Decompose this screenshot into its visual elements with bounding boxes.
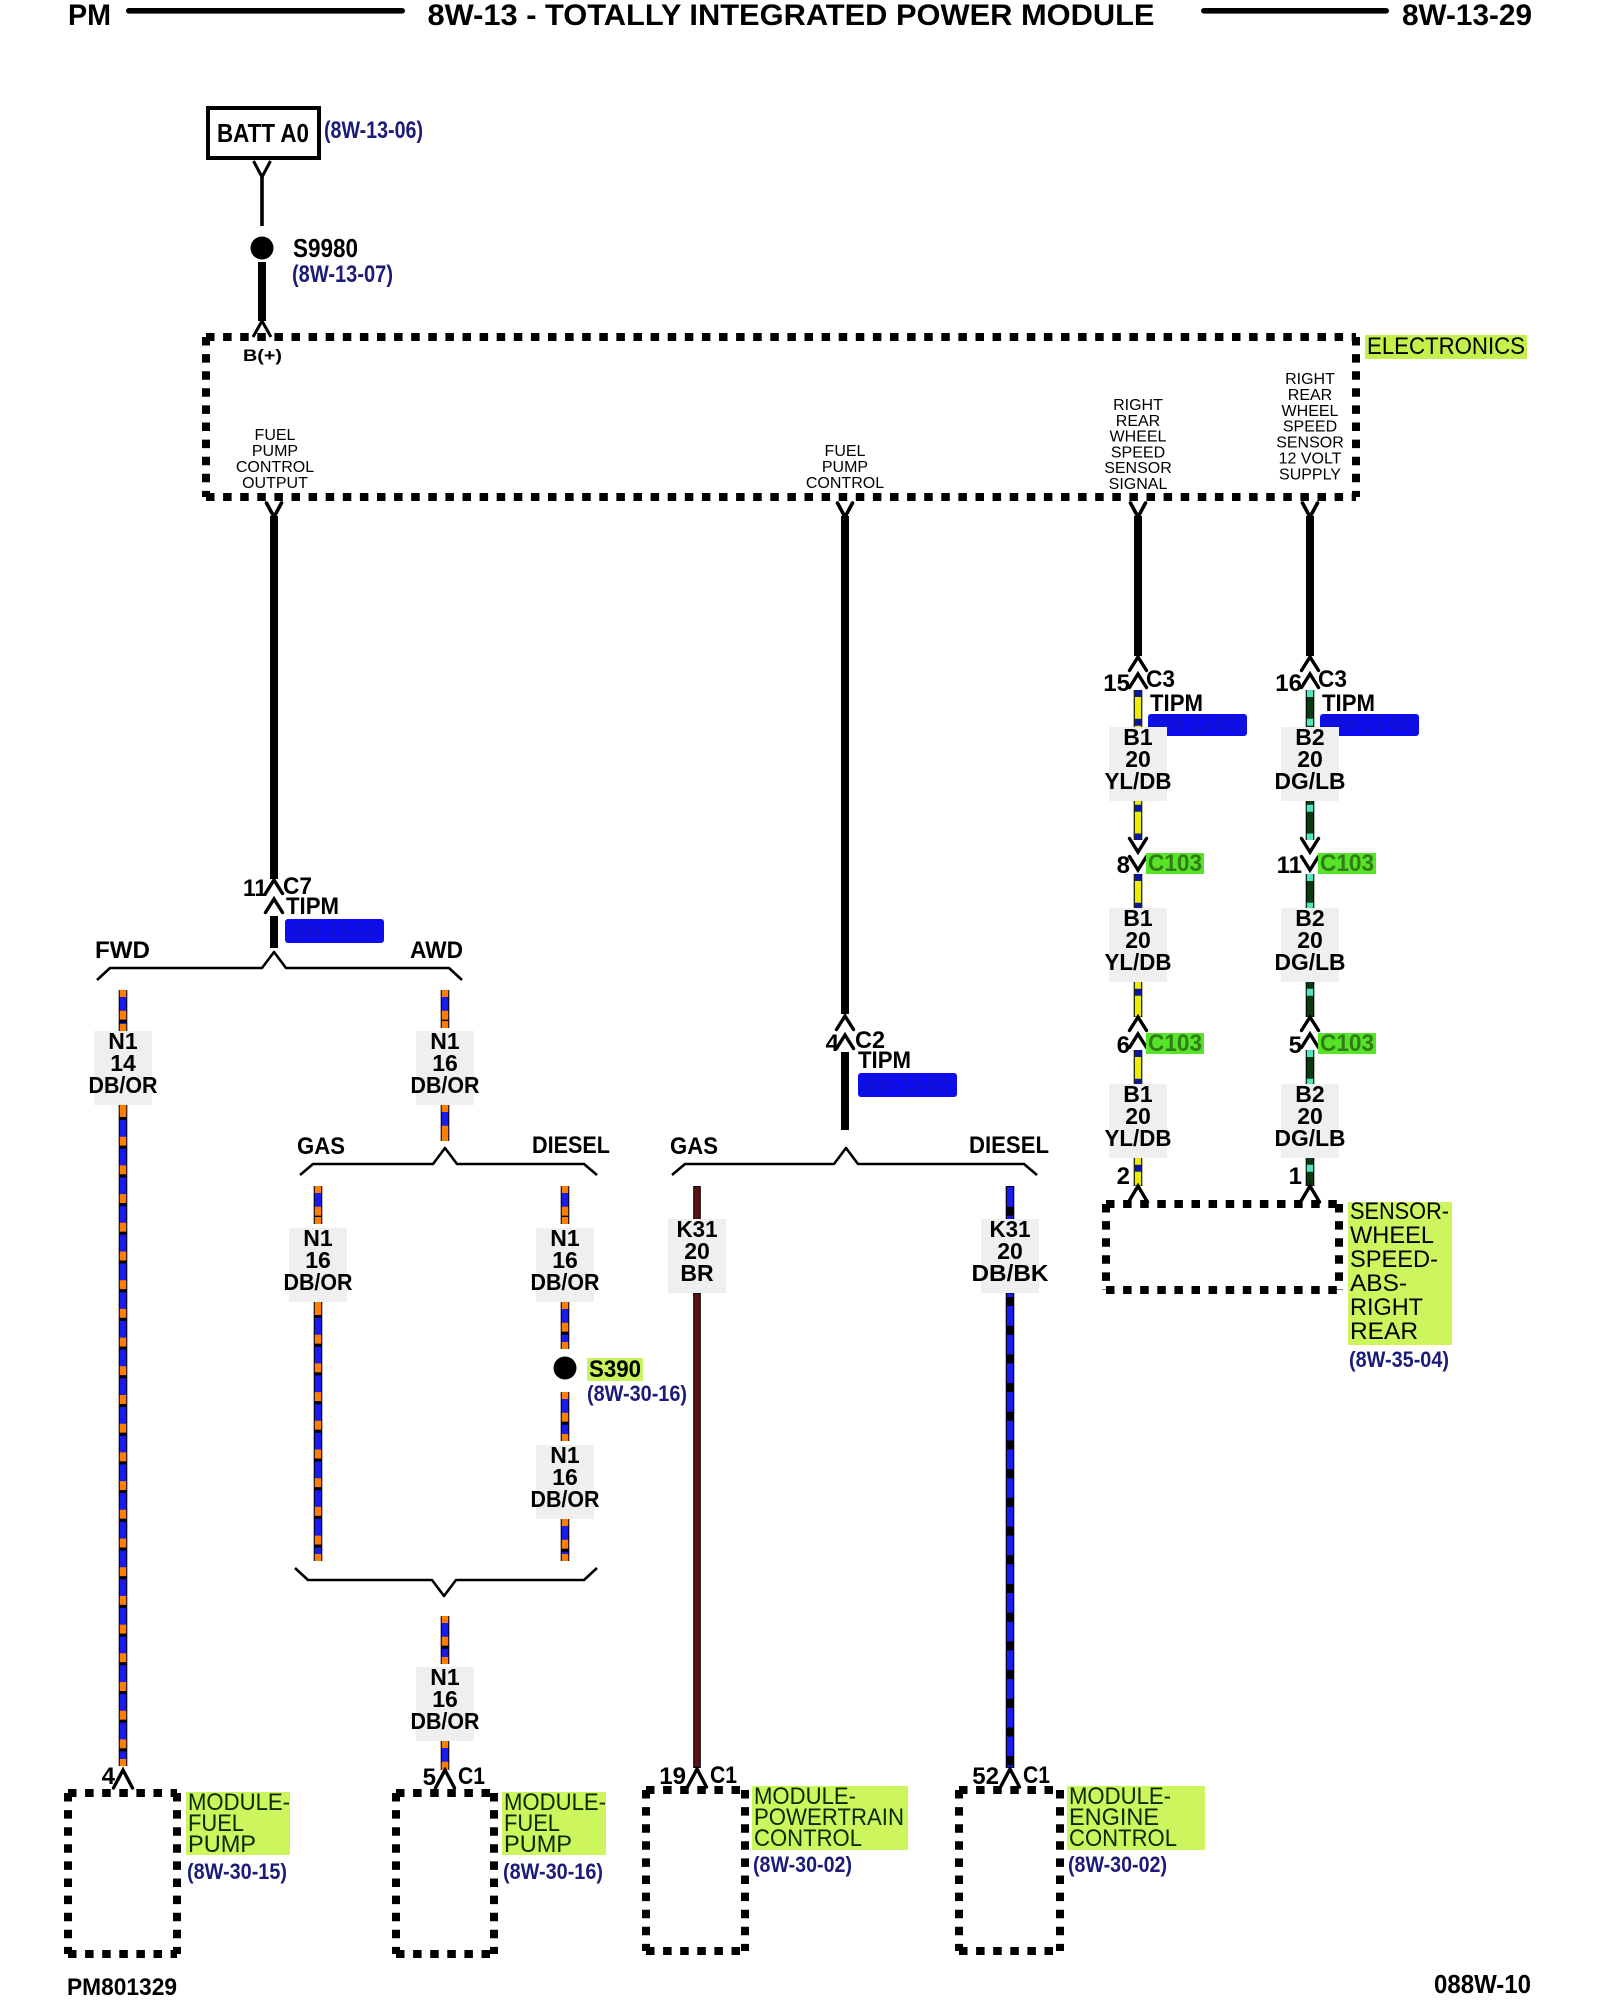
connector 11 C7 TIPM	[266, 880, 283, 894]
svg-text:PUMP: PUMP	[822, 459, 868, 476]
wire B2 20 DG/LB seg3	[1306, 1050, 1315, 1186]
connector fork at TIPM box exit x=1310	[1303, 503, 1318, 517]
svg-text:DB/OR: DB/OR	[284, 1269, 353, 1295]
module box MODULE-ENGINE CONTROL	[959, 1786, 1060, 1794]
svg-text:WHEEL: WHEEL	[1350, 1222, 1434, 1249]
svg-text:WHEEL: WHEEL	[1110, 429, 1167, 446]
svg-text:RIGHT: RIGHT	[1350, 1294, 1423, 1321]
splice S9980	[251, 237, 274, 260]
svg-text:SENSOR: SENSOR	[1104, 460, 1172, 477]
svg-text:RIGHT: RIGHT	[1285, 371, 1335, 388]
svg-text:C3: C3	[1146, 666, 1175, 693]
svg-text:REAR: REAR	[1350, 1318, 1418, 1345]
svg-text:(8W-13-07): (8W-13-07)	[292, 261, 393, 288]
svg-text:(8W-30-15): (8W-30-15)	[187, 1859, 287, 1884]
connector fork at TIPM box exit x=1138	[1131, 503, 1146, 517]
connector fork at TIPM box exit x=274	[267, 503, 282, 517]
wire into splice S390	[561, 1302, 570, 1349]
svg-text:2: 2	[1117, 1163, 1130, 1190]
connector 11 C103	[1302, 839, 1319, 853]
svg-text:C1: C1	[458, 1763, 485, 1790]
connector fork at TIPM box exit x=845	[838, 503, 853, 517]
svg-text:BR: BR	[680, 1260, 714, 1286]
svg-text:DIESEL: DIESEL	[969, 1132, 1049, 1159]
node DIESEL wire N1 16 DB/OR	[561, 1186, 570, 1224]
wire below S390	[561, 1392, 570, 1441]
svg-text:12 VOLT: 12 VOLT	[1279, 451, 1342, 468]
svg-text:AWD: AWD	[410, 937, 463, 964]
wire K31 20 DB/BK long run	[1006, 1293, 1015, 1768]
wire B2 20 DG/LB seg2	[1306, 874, 1315, 1017]
wire FPCO TIPM to C7	[270, 516, 278, 879]
svg-text:CONTROL: CONTROL	[1069, 1825, 1177, 1852]
svg-text:PM801329: PM801329	[67, 1974, 177, 2000]
wire B1 20 YL/DB seg3	[1134, 1050, 1143, 1186]
svg-text:PUMP: PUMP	[252, 443, 298, 460]
svg-text:52: 52	[972, 1763, 999, 1790]
svg-text:SENSOR-: SENSOR-	[1350, 1198, 1449, 1225]
svg-text:C1: C1	[710, 1762, 737, 1789]
svg-text:S9980: S9980	[293, 233, 358, 263]
svg-text:(8W-13-06): (8W-13-06)	[324, 117, 423, 144]
connector 4 C2 TIPM	[837, 1016, 854, 1030]
node FWD wire N1 14 DB/OR	[119, 990, 128, 1031]
svg-text:FUEL: FUEL	[825, 443, 866, 460]
svg-text:CONTROL: CONTROL	[806, 475, 884, 492]
wire below label	[561, 1519, 570, 1561]
blue ref box (8W-13-02) C7	[285, 919, 384, 943]
svg-text:SPEED: SPEED	[1111, 444, 1165, 461]
svg-text:DB/BK: DB/BK	[972, 1260, 1049, 1286]
svg-text:11: 11	[1277, 852, 1302, 879]
svg-text:8W-13 - TOTALLY INTEGRATED POW: 8W-13 - TOTALLY INTEGRATED POWER MODULE	[428, 0, 1155, 32]
wire B2 20 DG/LB seg1	[1306, 690, 1315, 840]
node GAS wire N1 16 DB/OR	[314, 1186, 323, 1224]
wire K31 20 BR long run	[693, 1293, 701, 1768]
blue ref box (8W-13-02) C3	[1148, 714, 1247, 736]
svg-text:DG/LB: DG/LB	[1275, 768, 1346, 794]
svg-text:REAR: REAR	[1288, 387, 1332, 404]
svg-text:11: 11	[243, 875, 267, 902]
blue ref box (8W-13-02) C2	[858, 1073, 957, 1097]
connector 16 C3 TIPM	[1302, 657, 1319, 671]
svg-text:CONTROL: CONTROL	[236, 459, 314, 476]
svg-text:DB/OR: DB/OR	[411, 1708, 480, 1734]
wire RRWSS signal TIPM to C3	[1134, 516, 1142, 656]
wire battery to splice	[260, 177, 264, 226]
svg-text:(8W-30-16): (8W-30-16)	[503, 1859, 603, 1884]
module box MODULE-FUEL PUMP (8W-30-15)	[68, 1789, 177, 1797]
GAS / DIESEL brace (left)	[300, 1148, 597, 1175]
wire FPC TIPM to C2	[841, 516, 849, 1014]
svg-text:DG/LB: DG/LB	[1275, 1125, 1346, 1151]
connector 5 C103	[1302, 1017, 1319, 1031]
svg-text:ELECTRONICS: ELECTRONICS	[1367, 333, 1525, 360]
svg-text:(8W-30-16): (8W-30-16)	[587, 1381, 687, 1406]
svg-text:CONTROL: CONTROL	[754, 1825, 862, 1852]
svg-text:ABS-: ABS-	[1350, 1270, 1407, 1297]
node DIESEL wire K31 20 DB/BK	[1006, 1186, 1015, 1220]
svg-text:SPEED: SPEED	[1283, 419, 1337, 436]
blue ref box (8W-13-02) C3 right	[1320, 714, 1419, 736]
svg-text:YL/DB: YL/DB	[1105, 1125, 1172, 1151]
connector 15 C3 TIPM	[1130, 657, 1147, 671]
ELECTRONICS label	[1365, 335, 1527, 359]
svg-text:OUTPUT: OUTPUT	[242, 475, 308, 492]
header right rule	[1201, 8, 1389, 14]
TIPM ELECTRONICS dashed box	[206, 333, 1356, 341]
svg-text:DB/OR: DB/OR	[531, 1486, 600, 1512]
svg-text:REAR: REAR	[1116, 413, 1160, 430]
module box MODULE-POWERTRAIN CONTROL	[646, 1786, 745, 1794]
svg-text:(8W-13-02): (8W-13-02)	[861, 1072, 954, 1097]
wire stub below C7	[270, 916, 278, 948]
battery box BATT A0	[208, 108, 319, 158]
splice S390	[554, 1357, 577, 1380]
svg-text:BATT A0: BATT A0	[217, 118, 309, 148]
connector 8 C103	[1130, 839, 1147, 853]
svg-text:SUPPLY: SUPPLY	[1279, 466, 1341, 483]
svg-text:SENSOR: SENSOR	[1276, 435, 1344, 452]
wire into fuel pump module 2	[441, 1741, 450, 1770]
wire N1 14 DB/OR long run	[119, 1105, 128, 1766]
merged wire N1 16 DB/OR	[441, 1616, 450, 1664]
svg-text:RIGHT: RIGHT	[1113, 397, 1163, 414]
svg-text:S390: S390	[589, 1356, 641, 1383]
svg-text:(8W-30-02): (8W-30-02)	[1068, 1852, 1167, 1877]
svg-text:FUEL: FUEL	[255, 427, 296, 444]
svg-text:PUMP: PUMP	[504, 1831, 572, 1858]
wire below AWD label	[441, 1105, 450, 1141]
svg-text:DB/OR: DB/OR	[531, 1269, 600, 1295]
svg-text:(8W-35-04): (8W-35-04)	[1349, 1347, 1449, 1372]
svg-text:(8W-30-02): (8W-30-02)	[753, 1852, 852, 1877]
svg-text:SIGNAL: SIGNAL	[1109, 476, 1168, 493]
svg-text:YL/DB: YL/DB	[1105, 768, 1172, 794]
svg-text:8W-13-29: 8W-13-29	[1402, 0, 1532, 32]
svg-text:DG/LB: DG/LB	[1275, 949, 1346, 975]
svg-text:1: 1	[1289, 1163, 1302, 1190]
sensor dashed box	[1106, 1200, 1339, 1208]
svg-text:4: 4	[826, 1030, 840, 1057]
svg-text:C3: C3	[1318, 666, 1347, 693]
node GAS wire K31 20 BR	[693, 1186, 701, 1220]
svg-text:GAS: GAS	[670, 1133, 718, 1160]
svg-text:C1: C1	[1023, 1762, 1050, 1789]
svg-text:TIPM: TIPM	[286, 893, 339, 920]
wire splice to TIPM	[258, 262, 266, 321]
svg-text:088W-10: 088W-10	[1434, 1969, 1531, 1999]
connector 6 C103	[1130, 1017, 1147, 1031]
module box MODULE-FUEL PUMP (8W-30-16)	[396, 1789, 494, 1797]
wire B1 20 YL/DB seg1	[1134, 690, 1143, 840]
svg-text:WHEEL: WHEEL	[1282, 403, 1339, 420]
svg-text:DB/OR: DB/OR	[89, 1072, 158, 1098]
svg-text:(8W-13-02): (8W-13-02)	[288, 918, 381, 943]
header left rule	[126, 8, 405, 14]
svg-text:GAS: GAS	[297, 1133, 345, 1160]
connector fork B(+)	[253, 321, 271, 337]
svg-text:6: 6	[1117, 1032, 1130, 1059]
svg-text:8: 8	[1117, 852, 1130, 879]
svg-text:5: 5	[423, 1764, 436, 1791]
wire GAS long run	[314, 1302, 323, 1561]
svg-text:19: 19	[659, 1763, 686, 1790]
svg-text:PUMP: PUMP	[188, 1831, 256, 1858]
connector fork below battery	[254, 161, 271, 177]
svg-text:DB/OR: DB/OR	[411, 1072, 480, 1098]
svg-text:PM: PM	[68, 0, 111, 32]
svg-text:SPEED-: SPEED-	[1350, 1246, 1438, 1273]
svg-text:FWD: FWD	[95, 937, 150, 964]
svg-text:YL/DB: YL/DB	[1105, 949, 1172, 975]
svg-text:5: 5	[1289, 1032, 1302, 1059]
wire stub below C2	[841, 1052, 849, 1130]
svg-text:16: 16	[1275, 670, 1302, 697]
label SENSOR-WHEEL SPEED-ABS-RIGHT REAR	[1348, 1202, 1452, 1345]
svg-text:15: 15	[1103, 670, 1130, 697]
svg-text:TIPM: TIPM	[858, 1047, 911, 1074]
svg-text:B(+): B(+)	[243, 346, 282, 365]
FWD / AWD brace	[97, 952, 462, 980]
GAS / DIESEL brace (right)	[672, 1148, 1037, 1175]
wire B1 20 YL/DB seg2	[1134, 874, 1143, 1017]
wire RRWSS supply TIPM to C3	[1306, 516, 1314, 656]
merge brace GAS+DIESEL	[295, 1568, 597, 1596]
node AWD wire N1 16 DB/OR	[441, 990, 450, 1028]
svg-text:DIESEL: DIESEL	[532, 1132, 610, 1159]
